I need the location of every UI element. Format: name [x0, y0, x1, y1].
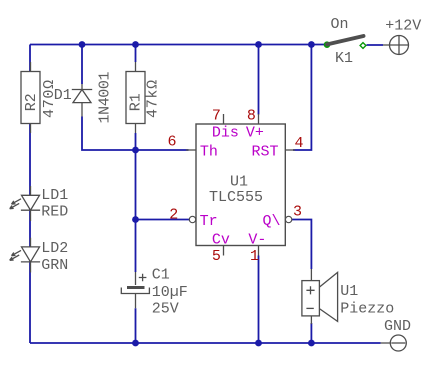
junction Tr node: [132, 216, 139, 223]
svg-text:LD2: LD2: [41, 240, 68, 257]
wire pin3 Q to piezo: [292, 220, 312, 270]
wire R1 bottom / center column: [135, 133, 137, 343]
op-amp U1 TLC555 box: [196, 124, 285, 246]
svg-text:6: 6: [168, 134, 177, 151]
svg-text:8: 8: [247, 108, 256, 125]
svg-text:R2: R2: [23, 93, 40, 111]
wire pin8 V+: [258, 45, 260, 115]
svg-text:4: 4: [295, 135, 304, 152]
svg-text:Dis: Dis: [212, 125, 239, 142]
wire top rail: [30, 44, 326, 46]
pin 6 stub: [186, 149, 196, 151]
wire R1 top: [135, 45, 137, 63]
svg-text:R1: R1: [128, 93, 145, 111]
wire left rail: [29, 45, 31, 344]
junction Th node: [132, 147, 139, 154]
svg-text:25V: 25V: [152, 301, 179, 318]
svg-text:GND: GND: [384, 318, 411, 335]
svg-text:K1: K1: [335, 50, 353, 67]
wire piezo bottom: [310, 323, 312, 343]
pin 8 stub: [258, 114, 260, 124]
piezo U1: [302, 269, 338, 324]
switch K1 bar: [327, 36, 363, 44]
svg-text:U1: U1: [230, 173, 248, 190]
junction top D1: [79, 41, 86, 48]
supply +12V symbol: [383, 36, 409, 55]
svg-text:47kΩ: 47kΩ: [145, 79, 162, 118]
svg-text:V+: V+: [246, 125, 264, 142]
switch K1 pivot dot: [324, 41, 331, 48]
wire D1 top: [81, 45, 83, 85]
wire D1 bottom to Th net: [82, 117, 189, 151]
svg-text:D1: D1: [54, 87, 72, 104]
svg-text:2: 2: [169, 206, 178, 223]
svg-text:LD1: LD1: [41, 187, 68, 204]
diode D1: [72, 84, 92, 117]
svg-text:TLC555: TLC555: [209, 189, 263, 206]
wire pin1 V-: [258, 256, 260, 344]
svg-text:Piezzo: Piezzo: [340, 301, 394, 318]
svg-text:GRN: GRN: [41, 257, 68, 274]
svg-text:RST: RST: [252, 144, 279, 161]
pin 5 stub: [223, 246, 225, 256]
wire bottom rail: [30, 342, 381, 344]
wire switch to +12V: [367, 44, 384, 46]
LED LD1: [10, 186, 40, 221]
svg-text:Th: Th: [200, 144, 218, 161]
pin 3 circle: [285, 216, 291, 222]
wire Tr net: [136, 219, 190, 221]
capacitor C1: [121, 272, 149, 308]
svg-text:5: 5: [212, 248, 221, 265]
svg-text:On: On: [331, 16, 349, 33]
svg-text:V-: V-: [248, 231, 266, 248]
pin 2 circle: [189, 216, 195, 222]
svg-text:1: 1: [250, 248, 259, 265]
junction top pin8: [255, 41, 262, 48]
svg-text:C1: C1: [152, 267, 170, 284]
switch K1 contact diamond: [360, 43, 366, 49]
svg-text:Cv: Cv: [212, 231, 230, 248]
wire pin4 RST: [293, 45, 311, 151]
ground GND symbol: [381, 335, 407, 351]
svg-text:+12V: +12V: [385, 17, 421, 34]
svg-text:3: 3: [293, 204, 302, 221]
svg-text:U1: U1: [340, 283, 358, 300]
svg-text:7: 7: [212, 108, 221, 125]
junction bottom piezo: [308, 340, 315, 347]
svg-text:Tr: Tr: [200, 213, 218, 230]
junction bottom C1: [132, 340, 139, 347]
LED LD2: [10, 238, 40, 273]
junction bottom pin1: [255, 340, 262, 347]
resistor R2: [21, 62, 40, 133]
svg-text:1N4001: 1N4001: [97, 71, 114, 123]
svg-text:Q\: Q\: [263, 213, 281, 230]
svg-text:RED: RED: [41, 204, 68, 221]
pin 1 stub: [258, 246, 260, 256]
svg-text:10µF: 10µF: [152, 284, 188, 301]
resistor R1: [126, 62, 145, 133]
pin 4 stub: [285, 149, 295, 151]
pin 7 stub: [223, 114, 225, 124]
junction top R1: [132, 41, 139, 48]
junction top pin4: [308, 41, 315, 48]
